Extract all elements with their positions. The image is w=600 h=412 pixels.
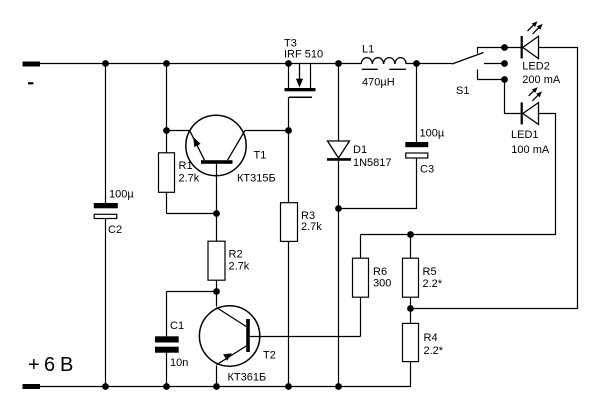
wire LED2 to sense node xyxy=(411,48,578,309)
svg-text:В: В xyxy=(60,354,73,376)
transistor T1 xyxy=(186,115,276,213)
svg-text:R2: R2 xyxy=(229,248,243,260)
resistor R6 xyxy=(353,235,392,337)
switch S1 xyxy=(452,44,508,97)
terminal minus input xyxy=(23,62,41,85)
wire T1 collector to gate column xyxy=(245,130,289,132)
svg-text:100 mA: 100 mA xyxy=(511,144,550,156)
node R2 C1 T2 xyxy=(213,288,220,295)
svg-text:S1: S1 xyxy=(456,85,469,97)
svg-text:R5: R5 xyxy=(423,266,437,278)
svg-text:D1: D1 xyxy=(353,144,367,156)
LED2 xyxy=(521,21,561,86)
node T1 emitter xyxy=(163,127,170,134)
inductor L1 xyxy=(361,44,406,89)
node bottom rail T2 xyxy=(213,383,220,390)
node bottom rail D1 xyxy=(335,383,342,390)
wire top rail right of L1 xyxy=(406,63,452,65)
svg-text:C1: C1 xyxy=(170,320,184,332)
node bottom rail C1 xyxy=(163,383,170,390)
resistor R4 xyxy=(403,309,444,387)
svg-text:L1: L1 xyxy=(362,44,374,56)
wire T1 emitter to R1 column xyxy=(167,130,191,132)
svg-text:100µ: 100µ xyxy=(109,188,134,200)
node top rail R1 xyxy=(163,60,170,67)
wire bottom rail xyxy=(23,386,411,388)
svg-text:2.7k: 2.7k xyxy=(301,221,322,233)
svg-text:2.7k: 2.7k xyxy=(229,260,250,272)
diode D1 xyxy=(327,64,392,387)
node top rail C2 xyxy=(102,60,109,67)
capacitor C2 xyxy=(94,64,135,387)
node bottom rail C2 xyxy=(102,383,109,390)
resistor R1 xyxy=(159,64,200,214)
resistor R3 xyxy=(281,203,323,387)
terminal +6V input xyxy=(23,354,74,389)
node R5 top xyxy=(407,231,414,238)
svg-text:2.2*: 2.2* xyxy=(424,345,444,357)
transistor T2 xyxy=(199,292,360,387)
wire LED1 to sense top xyxy=(361,114,556,235)
svg-text:R4: R4 xyxy=(424,332,438,344)
svg-text:R6: R6 xyxy=(373,266,387,278)
svg-text:LED1: LED1 xyxy=(511,129,539,141)
capacitor C1 xyxy=(155,292,217,387)
svg-text:КТ315Б: КТ315Б xyxy=(237,173,276,185)
svg-text:100µ: 100µ xyxy=(420,128,445,140)
svg-text:T1: T1 xyxy=(254,150,267,162)
node top rail D1 xyxy=(335,60,342,67)
wire top rail left xyxy=(40,63,361,65)
capacitor C3 xyxy=(339,64,445,209)
svg-text:470µH: 470µH xyxy=(362,77,395,89)
svg-text:C2: C2 xyxy=(108,224,122,236)
svg-text:2.7k: 2.7k xyxy=(179,173,200,185)
svg-text:10n: 10n xyxy=(170,357,188,369)
wire gate column to R3 xyxy=(288,97,290,203)
svg-text:1N5817: 1N5817 xyxy=(353,157,392,169)
svg-text:КТ361Б: КТ361Б xyxy=(228,372,267,384)
LED1 xyxy=(511,87,550,156)
svg-text:LED2: LED2 xyxy=(522,60,550,72)
svg-text:300: 300 xyxy=(373,278,391,290)
node top rail C3 xyxy=(413,60,420,67)
wire S1 to LED1 xyxy=(505,80,521,114)
node R5 R4 xyxy=(407,305,414,312)
node bottom rail R3 xyxy=(285,383,292,390)
wire S1 to LED2 xyxy=(505,47,521,49)
resistor R5 xyxy=(403,235,443,309)
resistor R2 xyxy=(208,214,250,292)
node T1 base R1 R2 xyxy=(213,210,220,217)
svg-text:6: 6 xyxy=(44,354,55,376)
transistor T3 MOSFET IRF510 xyxy=(284,38,323,98)
wire R1 bottom to T1 base xyxy=(167,213,217,215)
svg-text:+: + xyxy=(28,354,40,376)
svg-text:2.2*: 2.2* xyxy=(423,278,443,290)
svg-text:T2: T2 xyxy=(263,350,276,362)
node top rail T3 drain xyxy=(285,60,292,67)
svg-text:200 mA: 200 mA xyxy=(522,74,561,86)
svg-text:C3: C3 xyxy=(420,164,434,176)
node T1 collector gate xyxy=(285,127,292,134)
svg-text:IRF 510: IRF 510 xyxy=(284,49,323,61)
node D1 C3 xyxy=(335,205,342,212)
